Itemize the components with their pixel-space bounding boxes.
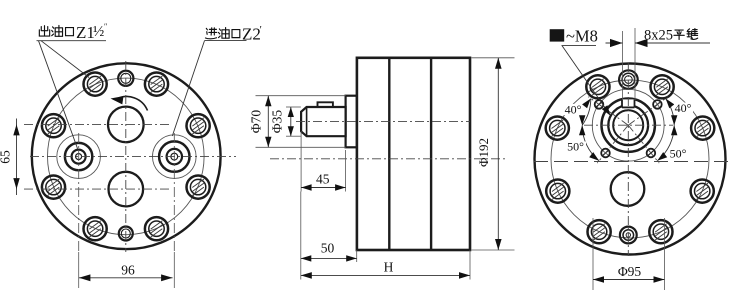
left view bolt hole side-upper-right (hatched) <box>187 114 210 137</box>
svg-text:′: ′ <box>260 24 262 36</box>
svg-text:50°: 50° <box>670 147 687 161</box>
angular dimension arrowheads <box>579 99 677 161</box>
left view bolt hole bottom-left (hatched) <box>84 217 107 240</box>
right view bolt hole side-upper-right (hatched) <box>691 117 714 140</box>
key on shaft (8x25) <box>318 102 333 107</box>
right port (inlet) boss circle <box>153 135 197 179</box>
svg-text:65: 65 <box>0 150 13 164</box>
label leader: inlet port <box>172 41 204 136</box>
left view bottom small hole (6 o'clock) <box>119 227 133 241</box>
angular dimension arc 40deg right <box>666 99 675 126</box>
rotation direction arrow <box>111 96 148 110</box>
M8 tapped holes bolt circle (thin) <box>592 89 664 161</box>
keyway dimension arrows 8x25 <box>606 39 711 47</box>
text 50deg right <box>669 147 688 161</box>
left view vertical centerline <box>125 61 127 252</box>
M8 label underline <box>562 45 597 47</box>
svg-text:45: 45 <box>316 172 330 187</box>
left view bolt hole upper-right (hatched) <box>145 73 168 96</box>
left view top small hole (12 o'clock) <box>118 71 133 86</box>
svg-text:Φ35: Φ35 <box>270 110 285 134</box>
pump body rectangle <box>357 58 470 250</box>
left view bolt circle (thin) <box>48 78 205 235</box>
shaft boss flange <box>346 96 357 148</box>
angular dimension arc 50deg right <box>657 125 674 161</box>
dimension phi35 <box>270 107 301 136</box>
svg-text:Φ95: Φ95 <box>618 264 642 279</box>
left port (outlet) boss circle <box>57 135 101 179</box>
diagonal centerlines through M8 holes <box>588 97 668 163</box>
right view bolt hole side-lower-left (hatched) <box>546 180 569 203</box>
body section line 1 <box>388 58 390 250</box>
right view lower bore circle <box>611 172 645 206</box>
keyway notch <box>622 99 635 107</box>
svg-text:50°: 50° <box>567 140 584 154</box>
svg-text:40°: 40° <box>675 101 692 115</box>
dimension phi95 <box>593 218 665 290</box>
left view bolt hole bottom-right (hatched) <box>145 217 168 240</box>
shaft (side view, chamfered end) <box>301 107 346 136</box>
shaft chamfer line <box>306 107 308 136</box>
left 96 extension line <box>78 252 80 288</box>
shaft end: shaft circle phi35 <box>613 110 643 140</box>
shaft end: intermediate circle <box>608 105 648 145</box>
left view lower bore circle <box>109 172 144 207</box>
dimension 45 <box>301 131 346 192</box>
left view bolt hole side-upper-left (hatched) <box>42 114 65 137</box>
right view top small hole <box>619 70 638 89</box>
dimension 65 <box>0 119 20 196</box>
svg-text:″: ″ <box>104 22 107 31</box>
M8 tapped hole upper-right <box>653 100 662 109</box>
right port (inlet) Z2 port circles <box>159 141 189 171</box>
dimension phi192 <box>472 58 515 250</box>
right view bolt hole side-lower-right (hatched) <box>691 180 714 203</box>
shaft end: boss circle phi70 <box>602 99 655 152</box>
left view outer flange circle <box>32 63 221 249</box>
label leader: outlet to top-left bolt hole <box>41 41 89 78</box>
right view vertical centerline <box>627 63 629 256</box>
text 50deg left <box>565 140 586 154</box>
right view bolt hole bottom-left (hatched) <box>588 220 611 243</box>
label: inlet port text 进油口 Z2' <box>205 24 261 43</box>
svg-text:40°: 40° <box>565 103 582 117</box>
right view bolt hole side-upper-left (hatched) <box>546 117 569 140</box>
left view upper bore circle <box>108 107 144 143</box>
right view outer flange circle <box>535 64 726 255</box>
shaft centerline <box>296 120 470 122</box>
svg-text:H: H <box>384 260 394 275</box>
svg-text:Φ192: Φ192 <box>476 138 491 167</box>
left port vertical centerline <box>78 133 80 252</box>
svg-text:8x25: 8x25 <box>644 27 673 43</box>
left port (outlet) Z1 1/2 port circles <box>65 143 92 170</box>
shaft horizontal centerline <box>584 124 673 126</box>
M8 tapped hole lower-left <box>601 149 610 158</box>
body section line 2 <box>430 58 432 250</box>
M8 tapped hole lower-right <box>647 149 656 158</box>
keyway dimension extension lines <box>622 31 624 100</box>
svg-text:½: ½ <box>93 24 104 40</box>
right view bottom small hole <box>620 227 637 244</box>
svg-text:50: 50 <box>321 241 335 256</box>
angular dimension arc 40deg left <box>582 99 591 126</box>
left view bolt hole upper-left (hatched) <box>84 73 107 96</box>
right view bolt circle (thin) <box>551 80 709 238</box>
M8 label: filled square symbol <box>550 29 565 41</box>
label: 8x25 flat key <box>644 27 698 43</box>
left view horizontal centerline <box>30 155 236 157</box>
dimension 50 <box>301 192 357 263</box>
left view bolt hole side-lower-left (hatched) <box>42 176 65 199</box>
dimension H <box>301 250 470 280</box>
text 40deg right <box>674 101 693 115</box>
right view bolt hole upper-right (hatched) <box>651 75 674 98</box>
lower bore horizontal centerline (65 dim extension) <box>24 188 170 190</box>
main horizontal centerline of body <box>270 158 508 160</box>
right view bolt hole bottom-right (hatched) <box>649 220 672 243</box>
dimension phi70 <box>249 96 346 148</box>
svg-text:96: 96 <box>121 263 135 278</box>
M8 leader line with arrow <box>562 46 611 116</box>
svg-text:Φ70: Φ70 <box>249 110 264 134</box>
left view bolt hole side-lower-right (hatched) <box>187 176 210 199</box>
upper bore horizontal centerline (65 dim extension) <box>24 123 170 125</box>
label: outlet port text 出油口 Z1 1/2" <box>39 22 107 42</box>
right view bolt hole upper-left (hatched) <box>586 75 609 98</box>
dimension 96 <box>79 263 173 282</box>
right view horizontal centerline (long dash) <box>534 161 728 163</box>
M8 tapped hole upper-left <box>595 100 604 109</box>
label leader: outlet port to port circle <box>39 41 78 149</box>
right port vertical centerline <box>173 133 175 252</box>
label underline: inlet <box>205 40 247 42</box>
text 40deg left <box>563 103 582 117</box>
svg-text:~M8: ~M8 <box>566 26 598 45</box>
label underline: outlet <box>37 40 107 42</box>
right 96 extension line <box>173 252 175 288</box>
angular dimension arc 50deg left <box>582 125 599 161</box>
